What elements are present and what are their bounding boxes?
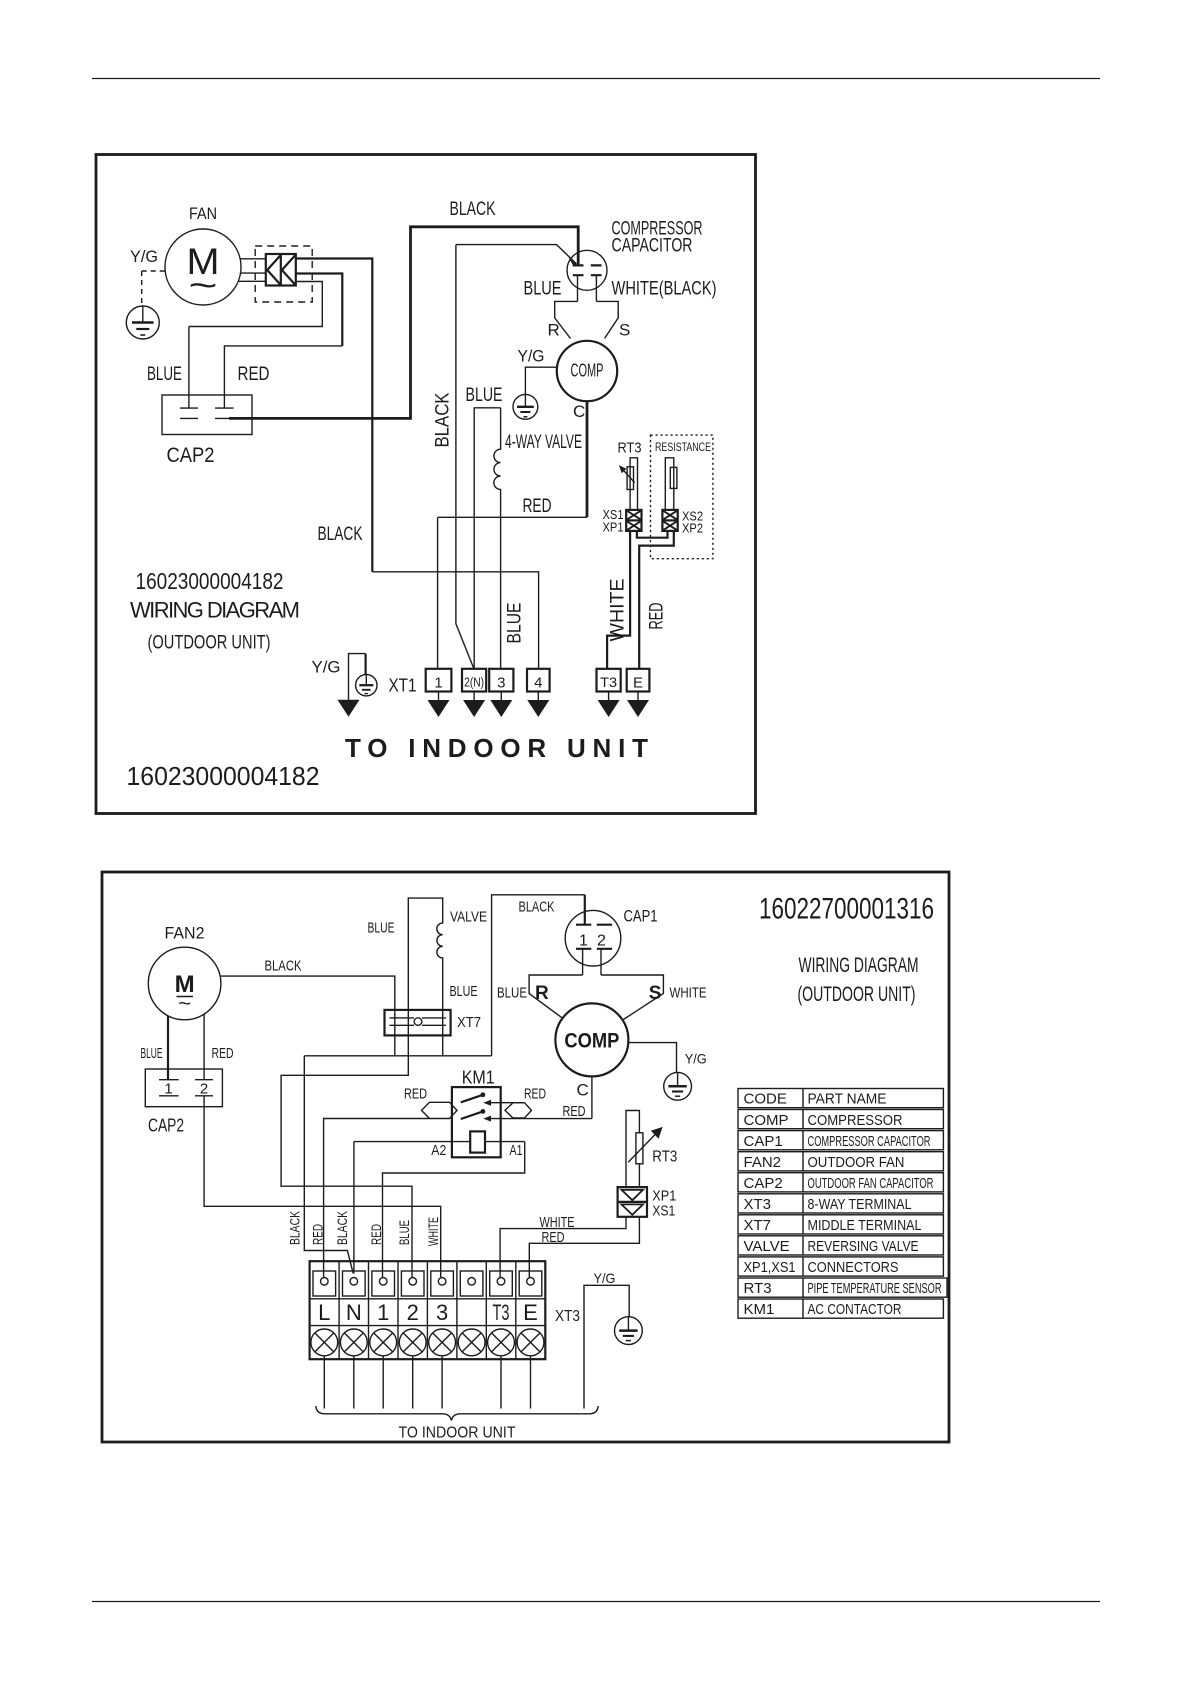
XT3 screw L — [311, 1329, 338, 1356]
valve coil wire — [494, 408, 501, 669]
svg-text:XP2: XP2 — [682, 521, 703, 536]
svg-text:Y/G: Y/G — [312, 658, 341, 677]
wire COMP C down — [586, 401, 589, 517]
svg-text:~: ~ — [178, 993, 191, 1015]
svg-text:XT3: XT3 — [744, 1196, 772, 1213]
svg-text:BLACK: BLACK — [433, 392, 454, 447]
XT3 clamp cell 2 — [401, 1271, 424, 1296]
connector triangle left — [267, 256, 280, 285]
svg-text:WHITE: WHITE — [608, 579, 629, 642]
KM1 upper contact — [461, 1095, 483, 1103]
wire BLACK from fan2 through XT7 — [221, 976, 395, 1056]
table row CAP2 — [738, 1173, 943, 1192]
svg-text:CODE: CODE — [744, 1091, 787, 1108]
wire below screw x=324.3 — [323, 1356, 325, 1409]
RESISTANCE dotted box — [651, 435, 713, 559]
wire Y/G bottom — [584, 1285, 629, 1408]
svg-text:8-WAY TERMINAL: 8-WAY TERMINAL — [808, 1196, 912, 1213]
svg-text:BLACK: BLACK — [287, 1211, 303, 1245]
Y/G bracket wires — [349, 654, 366, 700]
svg-text:RED: RED — [404, 1086, 427, 1103]
KM1 coil — [470, 1131, 485, 1152]
wire BLUE from valve top to terminal 2 — [474, 408, 500, 669]
wire below screw x=353.8 — [353, 1356, 355, 1409]
RT3 arrow — [622, 468, 635, 483]
svg-text:(OUTDOOR UNIT): (OUTDOOR UNIT) — [798, 983, 916, 1006]
table row CAP1 — [738, 1131, 943, 1150]
svg-text:BLUE: BLUE — [368, 920, 395, 937]
svg-text:CAPACITOR: CAPACITOR — [612, 236, 693, 257]
wire connector top to corner (black) — [296, 259, 373, 572]
svg-text:COMP: COMP — [564, 1030, 619, 1053]
connector XS2/XP2 — [662, 510, 677, 531]
svg-text:A2: A2 — [431, 1142, 446, 1159]
wire below screw x=412.7 — [412, 1356, 414, 1409]
svg-text:2(N): 2(N) — [464, 675, 484, 690]
wire BLUE riser into CAP2 — [188, 327, 190, 409]
wire BLUE detour valve to terminal 2 — [281, 1010, 412, 1277]
svg-text:BLUE: BLUE — [147, 364, 182, 385]
XT3 row lines — [310, 1299, 546, 1326]
svg-text:COMPRESSOR CAPACITOR: COMPRESSOR CAPACITOR — [808, 1133, 931, 1150]
svg-text:S: S — [619, 321, 630, 340]
XT3 clamp cell blank — [460, 1271, 483, 1296]
svg-text:2: 2 — [407, 1300, 419, 1325]
XT3 column dividers — [339, 1261, 516, 1359]
ground symbol at XT3 — [615, 1317, 643, 1345]
svg-text:RESISTANCE: RESISTANCE — [655, 440, 711, 454]
svg-text:BLACK: BLACK — [334, 1211, 350, 1245]
svg-text:Y/G: Y/G — [685, 1051, 707, 1067]
wire RED horizontal — [438, 516, 587, 518]
svg-text:16022700001316: 16022700001316 — [759, 893, 934, 926]
svg-text:COMPRESSOR: COMPRESSOR — [808, 1112, 903, 1129]
svg-text:1: 1 — [377, 1300, 389, 1325]
wire BLACK bus up to CAP1 — [492, 895, 585, 1056]
connector XS1/XP1 — [626, 510, 641, 531]
wire COMP2 C down — [591, 1076, 593, 1118]
svg-text:1: 1 — [164, 1081, 172, 1098]
compressor COMP2 circle — [555, 1003, 628, 1076]
svg-text:RED: RED — [238, 364, 270, 385]
XT3 screw blank — [458, 1329, 485, 1356]
valve loop wire — [408, 898, 442, 1056]
wire A2 to N — [353, 1142, 355, 1274]
wire below screw x=501.0 — [500, 1356, 502, 1409]
XT3 screw E — [517, 1329, 544, 1356]
wire BLACK down to N — [304, 1056, 353, 1274]
wire crown to COMP R and S — [555, 301, 619, 338]
svg-text:BLUE: BLUE — [505, 603, 526, 644]
wire connector bottom to CAP2 blue riser — [189, 282, 322, 327]
svg-text:CAP1: CAP1 — [624, 907, 658, 926]
junction arrowhead at capacitor plate — [569, 257, 578, 265]
capacitor CAP2 box — [162, 395, 252, 435]
XT3 screw 3 — [429, 1329, 456, 1356]
svg-text:4: 4 — [534, 675, 542, 692]
svg-text:BLACK: BLACK — [450, 199, 496, 220]
XT3 screw T3 — [488, 1329, 515, 1356]
svg-text:BLACK: BLACK — [519, 899, 555, 916]
XT3 clamp cell N — [343, 1271, 366, 1296]
hexagon wire tag left — [422, 1102, 458, 1118]
svg-text:BLUE: BLUE — [141, 1045, 163, 1062]
wire crown to COMP R S — [529, 975, 663, 1020]
XT3 clamp cell E — [519, 1271, 542, 1296]
dashed wire Y/G to fan and ground — [142, 271, 165, 306]
compressor capacitor plates — [573, 265, 602, 275]
svg-text:E: E — [523, 1300, 538, 1325]
svg-text:OUTDOOR FAN CAPACITOR: OUTDOOR FAN CAPACITOR — [808, 1175, 934, 1192]
svg-text:E: E — [633, 675, 643, 692]
connector plug body — [266, 254, 296, 286]
terminal XT1-E box — [627, 669, 650, 692]
terminal XT1-3 box — [489, 669, 513, 692]
wire below screw x=442.1 — [441, 1356, 443, 1409]
svg-text:REVERSING VALVE: REVERSING VALVE — [808, 1238, 919, 1255]
terminal XT7 box — [385, 1010, 451, 1036]
svg-text:XS1: XS1 — [652, 1203, 675, 1220]
wire corner to terminal 4 — [372, 572, 538, 669]
terminal XT1-T3 box — [597, 669, 621, 692]
wire CAP1 bottom stubs — [583, 949, 601, 975]
wire comp to ground — [525, 367, 556, 394]
wire fan2 red — [203, 1014, 205, 1080]
svg-text:XT3: XT3 — [555, 1308, 580, 1325]
top rule — [92, 78, 1100, 80]
table row KM1 — [738, 1299, 943, 1318]
terminal XT1-2(N) box — [462, 669, 486, 692]
svg-text:R: R — [535, 983, 549, 1004]
connector XP1/XS1 bottom — [618, 1187, 647, 1217]
svg-text:VALVE: VALVE — [744, 1238, 790, 1255]
terminal strip XT3 outer box — [310, 1261, 546, 1359]
svg-text:AC CONTACTOR: AC CONTACTOR — [808, 1301, 902, 1318]
svg-text:16023000004182: 16023000004182 — [127, 761, 320, 791]
wire XP1 to XS2 link — [637, 531, 668, 538]
svg-text:C: C — [577, 1081, 589, 1100]
svg-text:RED: RED — [310, 1224, 326, 1245]
ground symbol at XT1 — [356, 675, 377, 696]
svg-text:RED: RED — [212, 1045, 234, 1062]
svg-text:RT3: RT3 — [652, 1149, 677, 1166]
svg-text:XT7: XT7 — [457, 1014, 481, 1031]
KM1 lower contact — [461, 1111, 483, 1119]
svg-text:BLACK: BLACK — [318, 524, 363, 545]
table row COMP — [738, 1110, 943, 1129]
wire to terminal 1 — [437, 517, 439, 669]
svg-text:1: 1 — [434, 675, 442, 692]
svg-text:A1: A1 — [510, 1142, 523, 1159]
table row VALVE — [738, 1236, 943, 1255]
XT3 screw 2 — [399, 1329, 426, 1356]
wire KM1 left to terminal L — [324, 1119, 430, 1278]
svg-text:Y/G: Y/G — [130, 247, 158, 266]
svg-text:16023000004182: 16023000004182 — [136, 568, 284, 594]
svg-text:COMP: COMP — [571, 361, 604, 381]
svg-text:WIRING DIAGRAM: WIRING DIAGRAM — [799, 954, 919, 977]
svg-text:MIDDLE TERMINAL: MIDDLE TERMINAL — [808, 1217, 922, 1234]
terminal XT1-1 box — [426, 669, 452, 692]
svg-text:OUTDOOR FAN: OUTDOOR FAN — [808, 1154, 905, 1171]
svg-text:Y/G: Y/G — [518, 347, 545, 366]
svg-text:COMP: COMP — [744, 1112, 789, 1129]
compressor capacitor circle — [567, 250, 607, 290]
svg-text:FAN2: FAN2 — [744, 1154, 782, 1171]
svg-text:CAP2: CAP2 — [167, 444, 215, 467]
svg-text:4-WAY VALVE: 4-WAY VALVE — [505, 432, 582, 453]
table row CODE — [738, 1089, 943, 1108]
svg-text:CAP1: CAP1 — [744, 1133, 783, 1150]
wire capacitor bottom stubs — [578, 275, 597, 301]
svg-text:WHITE: WHITE — [425, 1217, 441, 1246]
wire WHITE to T3 — [607, 531, 630, 669]
Y/G arrow — [338, 700, 360, 717]
capacitor CAP2-2 box — [145, 1069, 222, 1107]
diagram 2 border frame — [102, 872, 949, 1442]
CAP2 right terminal plates — [215, 407, 234, 409]
svg-text:PIPE TEMPERATURE SENSOR: PIPE TEMPERATURE SENSOR — [808, 1280, 942, 1297]
XT3 clamp cell 1 — [372, 1271, 395, 1296]
wire below screw x=383.2 — [382, 1356, 384, 1409]
svg-text:T3: T3 — [600, 674, 617, 690]
table row FAN2 — [738, 1152, 943, 1171]
svg-text:(OUTDOOR UNIT): (OUTDOOR UNIT) — [148, 633, 271, 654]
svg-text:T3: T3 — [493, 1300, 510, 1325]
svg-text:XT1: XT1 — [389, 676, 417, 696]
wire RED from CAP2-2 to terminal 3 — [204, 1096, 441, 1277]
bottom rule — [92, 1601, 1100, 1603]
motor FAN2 circle — [148, 947, 221, 1020]
svg-text:RED: RED — [524, 1086, 546, 1103]
wire WHITE to T3 bottom — [500, 1217, 626, 1277]
svg-text:3: 3 — [497, 675, 505, 692]
XT3 clamp cell 3 — [431, 1271, 454, 1296]
svg-text:BLUE: BLUE — [466, 385, 503, 406]
svg-text:3: 3 — [436, 1300, 448, 1325]
XT3 screw 1 — [370, 1329, 397, 1356]
XT7 circle — [414, 1018, 422, 1026]
svg-text:VALVE: VALVE — [450, 909, 487, 926]
RT3 thermistor body — [627, 467, 633, 490]
svg-text:2: 2 — [597, 933, 606, 950]
table row RT3 — [738, 1278, 947, 1297]
XT7 rails — [390, 1018, 446, 1025]
svg-text:RED: RED — [523, 496, 552, 517]
hexagon wire tag right — [505, 1103, 532, 1118]
XT3 clamp cell T3 — [490, 1271, 513, 1296]
svg-text:WHITE: WHITE — [670, 985, 707, 1002]
RT3 arrow — [628, 1135, 655, 1163]
wire RED to E bottom — [529, 1217, 639, 1277]
svg-text:FAN2: FAN2 — [165, 924, 205, 943]
capacitor CAP1 circle — [565, 910, 621, 966]
svg-text:~: ~ — [189, 267, 218, 305]
table row XT3 — [738, 1194, 943, 1213]
CAP2-2 terminal 1 plates — [159, 1079, 179, 1081]
svg-text:FAN: FAN — [189, 204, 217, 223]
RT3 loop wires — [630, 458, 637, 510]
svg-text:1: 1 — [579, 933, 588, 950]
ground symbol at comp2 — [664, 1072, 692, 1100]
svg-text:RED: RED — [647, 603, 668, 630]
XT3 clamp cell L — [313, 1271, 336, 1296]
svg-text:XT7: XT7 — [744, 1217, 772, 1234]
svg-text:BLACK: BLACK — [265, 958, 302, 975]
svg-text:C: C — [573, 402, 585, 421]
brace to indoor unit — [316, 1406, 599, 1421]
connector triangle right — [282, 256, 295, 285]
RT3 thermistor body — [636, 1133, 643, 1164]
terminal XT1-4 box — [527, 669, 550, 692]
resistance loop wires — [665, 458, 674, 510]
CAP2-2 terminal 2 plates — [195, 1079, 213, 1081]
wire connector mid down to cap2 riser — [296, 274, 343, 346]
svg-text:BLUE: BLUE — [497, 985, 527, 1002]
wire A1 to terminal 1 — [383, 1142, 525, 1277]
table row XT7 — [738, 1215, 943, 1234]
contactor KM1 box — [452, 1087, 501, 1157]
svg-text:PART NAME: PART NAME — [808, 1091, 887, 1108]
svg-text:BLUE: BLUE — [396, 1220, 412, 1245]
svg-text:BLUE: BLUE — [450, 983, 478, 1000]
RT3 loop bottom — [626, 1111, 639, 1188]
svg-text:XP1,XS1: XP1,XS1 — [744, 1259, 796, 1276]
svg-text:N: N — [346, 1300, 362, 1325]
svg-text:L: L — [318, 1300, 330, 1325]
svg-text:CONNECTORS: CONNECTORS — [808, 1259, 899, 1276]
wire black vertical to 2(N) with diagonal — [456, 245, 474, 669]
ground symbol at comp — [513, 394, 538, 419]
svg-text:CAP2: CAP2 — [148, 1116, 184, 1136]
svg-text:CAP2: CAP2 — [744, 1175, 783, 1192]
svg-text:WHITE(BLACK): WHITE(BLACK) — [612, 279, 717, 300]
CAP1 plates — [576, 925, 612, 949]
svg-text:BLUE: BLUE — [524, 279, 562, 300]
XT3 screw N — [340, 1329, 367, 1356]
svg-text:S: S — [649, 983, 662, 1004]
svg-text:R: R — [548, 321, 560, 340]
wire A2 bus — [354, 1141, 525, 1143]
wire fan stubs — [239, 259, 266, 282]
CAP2 left terminal plates — [180, 407, 198, 409]
wire comp2 to ground — [628, 1043, 676, 1073]
compressor COMP circle — [557, 341, 617, 401]
motor FAN circle — [165, 229, 241, 305]
wire fan2 blue — [167, 1016, 169, 1080]
svg-text:WIRING DIAGRAM: WIRING DIAGRAM — [130, 598, 300, 623]
svg-text:RED: RED — [563, 1103, 586, 1120]
svg-text:RED: RED — [542, 1229, 565, 1246]
terminal arrows with stubs — [428, 692, 650, 718]
svg-text:RT3: RT3 — [744, 1280, 772, 1297]
svg-text:RT3: RT3 — [618, 440, 642, 457]
svg-text:TO INDOOR UNIT: TO INDOOR UNIT — [399, 1425, 516, 1442]
svg-text:2: 2 — [200, 1081, 208, 1098]
resistance resistor body — [670, 467, 677, 488]
svg-text:KM1: KM1 — [462, 1068, 495, 1088]
wire RED to E — [639, 531, 674, 669]
wire thin black to capacitor with diagonal — [456, 245, 577, 264]
wire to CAP2 right terminal — [224, 346, 342, 408]
wire below screw x=530.5 — [530, 1356, 532, 1409]
svg-text:Y/G: Y/G — [594, 1270, 616, 1286]
connector dashed box — [255, 246, 312, 302]
wire BLACK bus — [304, 1055, 491, 1057]
svg-text:KM1: KM1 — [744, 1301, 775, 1318]
svg-text:RED: RED — [368, 1224, 384, 1245]
ground symbol at fan — [126, 306, 159, 339]
table row XP1,XS1 — [738, 1257, 943, 1276]
diagram 1 border frame — [96, 155, 756, 814]
svg-text:XP1: XP1 — [603, 520, 624, 535]
wire thick black U from CAP2 to compressor capacitor — [229, 227, 578, 419]
